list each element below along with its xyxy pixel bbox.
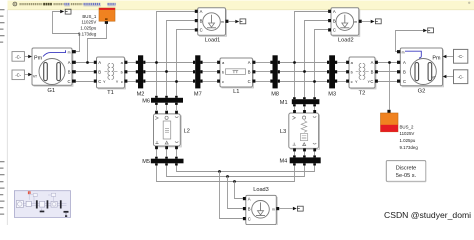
svg-text:T2: T2 <box>359 91 366 97</box>
wire L3 to M4 pins <box>295 151 315 155</box>
arrow goto2 <box>423 29 427 33</box>
svg-text:5e-05 s.: 5e-05 s. <box>396 173 417 179</box>
powergui Discrete block <box>386 161 426 182</box>
svg-text:Pm: Pm <box>432 56 441 62</box>
svg-text:BUS_2: BUS_2 <box>400 124 414 129</box>
svg-text:Load1: Load1 <box>205 38 221 44</box>
svg-text:A: A <box>403 60 406 65</box>
svg-text:M8: M8 <box>271 92 279 98</box>
wire Load1 phase A tap <box>157 12 195 96</box>
svg-text:L3: L3 <box>280 129 286 135</box>
svg-text:m: m <box>272 208 275 212</box>
notification text <box>20 2 471 6</box>
svg-text:c: c <box>222 79 224 84</box>
svg-text:B: B <box>98 70 101 75</box>
bus M7 <box>193 55 203 97</box>
svg-text:-C-: -C- <box>15 54 21 59</box>
bus M3 <box>327 55 337 97</box>
svg-text:11025V: 11025V <box>400 131 415 136</box>
wire M1 to L3 pins <box>295 106 315 110</box>
constant C4 <box>443 70 468 84</box>
svg-text:M1: M1 <box>280 100 288 106</box>
wire bottom line B (y177) <box>167 165 305 176</box>
svg-text:L1: L1 <box>233 89 239 95</box>
svg-text:L2: L2 <box>184 129 190 135</box>
svg-text:B: B <box>403 70 406 75</box>
node dot BUS_2 <box>388 61 391 64</box>
wire BUS_1 tap <box>88 24 107 63</box>
svg-text:Load3: Load3 <box>253 187 269 193</box>
wire G1 m to goto <box>53 12 80 52</box>
load block L2 <box>154 111 190 150</box>
bus M4 <box>280 155 321 165</box>
svg-text:M7: M7 <box>194 92 202 98</box>
svg-text:C: C <box>200 28 203 33</box>
svg-text:A: A <box>98 60 101 65</box>
svg-text:m: m <box>68 51 71 55</box>
svg-text:-C-: -C- <box>458 75 464 80</box>
wire to Load3 B <box>228 177 243 209</box>
wire Load1 phase C tap <box>177 30 195 96</box>
wire to Load3 C <box>220 172 243 219</box>
svg-text:m: m <box>402 51 405 55</box>
constant C3 <box>443 49 468 63</box>
goto tag G1m <box>65 9 71 14</box>
line L1 <box>217 58 255 95</box>
node dot B left <box>165 70 168 73</box>
svg-text:B: B <box>68 70 71 75</box>
svg-text:B: B <box>371 70 374 75</box>
node dot Load3 B <box>226 175 229 178</box>
node dot C right <box>313 80 316 83</box>
load Load1 <box>195 8 246 44</box>
svg-text:A: A <box>248 196 251 201</box>
svg-text:B: B <box>200 18 203 23</box>
node dot Load3 A <box>233 180 236 183</box>
svg-text:CSDN @studyer_domi: CSDN @studyer_domi <box>384 210 471 220</box>
bus M8 <box>270 55 280 97</box>
svg-text:C: C <box>248 216 251 221</box>
wire bottom line C (y171) <box>177 165 315 171</box>
wire Load1 phase B tap <box>167 21 195 96</box>
wire to Load3 A <box>235 182 243 199</box>
wire G1 A row <box>76 62 94 64</box>
wire Load2 phase A tap <box>295 12 329 98</box>
measurement BUS_2 <box>381 110 419 150</box>
svg-text:Pm: Pm <box>34 55 43 61</box>
svg-text:A: A <box>68 60 71 65</box>
svg-text:9.173deg: 9.173deg <box>78 32 97 37</box>
svg-text:G1: G1 <box>47 88 55 94</box>
svg-text:Y: Y <box>116 80 119 84</box>
notification info icon <box>13 2 17 6</box>
svg-text:A: A <box>371 60 374 65</box>
svg-text:C: C <box>333 28 336 33</box>
wire M3 to T2 <box>337 63 346 82</box>
wire G1 C row <box>76 81 94 83</box>
bus M5 <box>142 157 183 166</box>
measurement BUS_1 <box>78 8 115 37</box>
wire Load2 phase C tap <box>315 30 329 98</box>
bus M1 <box>280 97 320 106</box>
node dot Load3 C <box>218 170 221 173</box>
load Load2 <box>328 8 381 44</box>
wire M6 to L2 pins <box>157 105 177 110</box>
model thumbnail <box>14 191 70 218</box>
svg-text:A: A <box>248 60 251 65</box>
svg-text:Discrete: Discrete <box>396 166 417 172</box>
svg-text:Load2: Load2 <box>338 38 354 44</box>
transformer T1 <box>94 57 128 96</box>
wire M7 to L1 <box>203 63 218 82</box>
constant C2 <box>12 70 32 80</box>
svg-text:11025V: 11025V <box>81 20 96 25</box>
svg-text:m: m <box>221 20 224 24</box>
svg-text:-C-: -C- <box>15 73 21 78</box>
svg-text:B: B <box>248 206 251 211</box>
transformer T2 <box>346 57 378 97</box>
svg-text:M3: M3 <box>328 92 336 98</box>
arrow goto1 <box>60 10 64 14</box>
wire bottom line A (y182) <box>157 165 295 181</box>
wire G1 B row <box>76 71 94 73</box>
svg-text:M6: M6 <box>142 98 150 104</box>
wire T1 to M2 <box>127 63 135 82</box>
constant C1 <box>12 52 32 62</box>
bus M6 <box>142 96 183 105</box>
svg-text:M5: M5 <box>142 159 150 165</box>
svg-text:M4: M4 <box>280 159 288 165</box>
notification bar <box>8 1 474 10</box>
wire G2 m to goto <box>396 31 424 52</box>
svg-text:C: C <box>67 79 70 84</box>
wire M2 to M7 <box>145 63 193 82</box>
node dot A right <box>293 61 296 64</box>
left window edge marks <box>0 9 7 225</box>
svg-text:M2: M2 <box>137 92 145 98</box>
load block L3 <box>280 110 320 151</box>
svg-text:T1: T1 <box>107 90 114 96</box>
wire M8 to M3 <box>280 63 327 82</box>
wire Load2 phase B tap <box>305 21 329 98</box>
svg-text:m: m <box>354 20 357 24</box>
svg-text:A: A <box>333 9 336 14</box>
wire L2 to M5 pins <box>157 149 177 157</box>
bus M2 <box>136 55 146 97</box>
node dot C left <box>175 80 178 83</box>
svg-text:c: c <box>121 79 123 84</box>
svg-text:C: C <box>98 79 101 84</box>
node dot BUS_1 <box>86 61 89 64</box>
svg-text:-C-: -C- <box>458 54 464 59</box>
machine G2 <box>397 48 443 94</box>
svg-text:9.173deg: 9.173deg <box>400 145 419 150</box>
svg-text:BUS_1: BUS_1 <box>82 14 96 19</box>
load Load3 <box>243 187 303 225</box>
svg-text:G2: G2 <box>418 88 426 94</box>
svg-text:c: c <box>351 79 353 84</box>
goto tag G2m <box>428 28 434 33</box>
wire L1 to M8 <box>255 63 270 82</box>
node dot A left <box>155 61 158 64</box>
svg-text:1.025pu: 1.025pu <box>80 25 96 30</box>
machine G1 <box>32 48 76 94</box>
svg-text:C: C <box>403 79 406 84</box>
node dot B right <box>303 70 306 73</box>
svg-text:C: C <box>248 79 251 84</box>
svg-text:A: A <box>200 9 203 14</box>
svg-text:B: B <box>333 18 336 23</box>
wire T2 to G2 <box>378 63 397 82</box>
svg-text:1.025pu: 1.025pu <box>400 138 416 143</box>
svg-text:B: B <box>248 70 251 75</box>
wire BUS_2 tap <box>389 63 391 110</box>
svg-text:C: C <box>370 79 373 84</box>
